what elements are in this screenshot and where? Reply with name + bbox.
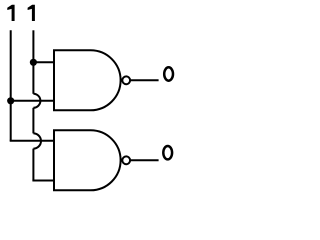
NAND gate U2 output bubble (122, 156, 130, 164)
node A junction dot (7, 97, 14, 104)
wire: net A vertical from input down to lower-left corner (10, 30, 12, 140)
input value label 1 (right, node B) (28, 5, 35, 21)
wire: U1 output (131, 79, 159, 81)
wire: net B vertical upper segment (32, 30, 34, 94)
wire: net B horizontal to bottom gate lower input (32, 179, 54, 181)
wire: U2 output (131, 159, 159, 161)
NAND gate U1 body (top) (54, 50, 121, 110)
NAND gate U1 output bubble (122, 76, 130, 84)
wire: net B branch horizontal to top gate upper input (33, 61, 54, 63)
output value label 0 (bottom) (163, 146, 172, 159)
wire: net A branch horizontal to top gate lower input (11, 100, 55, 102)
input value label 1 (left, node A) (7, 5, 14, 21)
wire hop: net B over net A horizontal (bottom) (33, 133, 41, 148)
wire: net B vertical middle segment (32, 108, 34, 134)
output value label 0 (top) (164, 67, 173, 80)
wire: net A horizontal to bottom gate upper input (10, 140, 55, 142)
wire: net B vertical lower segment (32, 149, 34, 181)
node B junction dot (30, 59, 37, 66)
NAND gate U2 body (bottom) (54, 130, 121, 190)
wire hop: net B over net A branch (top) (33, 94, 40, 108)
